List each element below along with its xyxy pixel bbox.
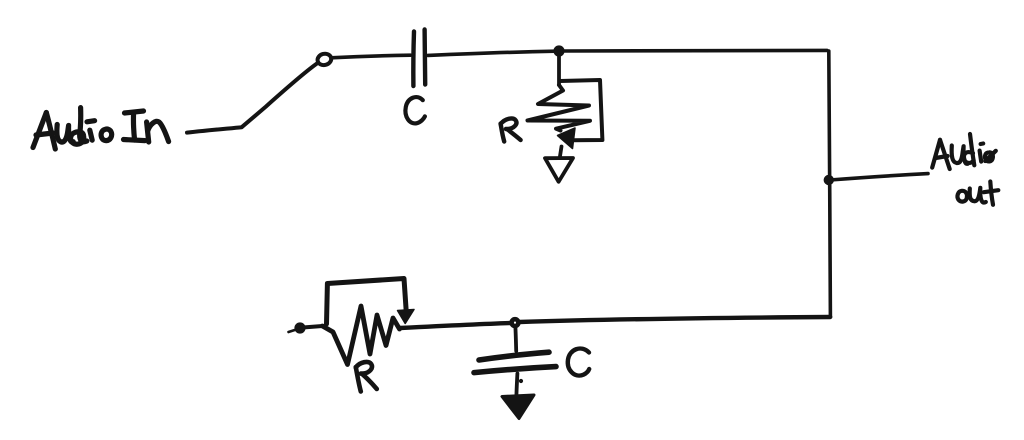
node junction A (top) [554,46,563,55]
wire C2 to ground [516,374,517,397]
wiper loop of R1 [560,80,602,140]
capacitor C2 bottom plate [474,367,556,373]
wire junction A to top-right corner [563,48,827,52]
wire input from Audio In to switch contact [187,64,317,133]
node bottom-left terminal dot [295,323,304,332]
wiper loop of R2 [327,279,407,325]
value label C (bottom capacitor) [568,349,589,376]
value label R (top resistor) [501,118,521,141]
ground (filled triangle, bottom) [502,395,534,419]
ink dot near C2 lead [519,379,522,382]
wire capacitor C1 to junction A [428,51,555,55]
value label C (top capacitor) [405,97,424,123]
capacitor C2 top plate [479,352,549,360]
wire stub left of terminal [289,330,296,332]
ground (open triangle, top) [545,158,573,182]
node input terminal circle [316,52,332,66]
wiper arrowhead of R2 [398,310,415,324]
label "Audio In" [33,108,169,149]
value label R (bottom resistor) [356,362,377,392]
wire resistor R2 to junction C [400,323,511,328]
node junction B (output tap) [825,176,833,184]
capacitor C1 [413,30,425,87]
wire junction A down to potentiometer R1 [557,55,561,85]
wire junction C to bottom-right corner [520,317,831,322]
wiper arrowhead of R1 [558,128,576,149]
wire junction C down to capacitor C2 [514,327,519,351]
label "Audio out" [932,134,998,205]
wire terminal to resistor R2 [305,326,323,327]
wire to Audio out [830,174,928,180]
wire right vertical bus [829,51,831,317]
wire R1 wiper to ground [560,147,562,158]
potentiometer R1 body (zigzag) [528,85,591,131]
resistor R2 body (zigzag) [323,306,400,365]
wire terminal to capacitor C1 [331,55,411,58]
node junction C (bottom) [512,319,519,326]
